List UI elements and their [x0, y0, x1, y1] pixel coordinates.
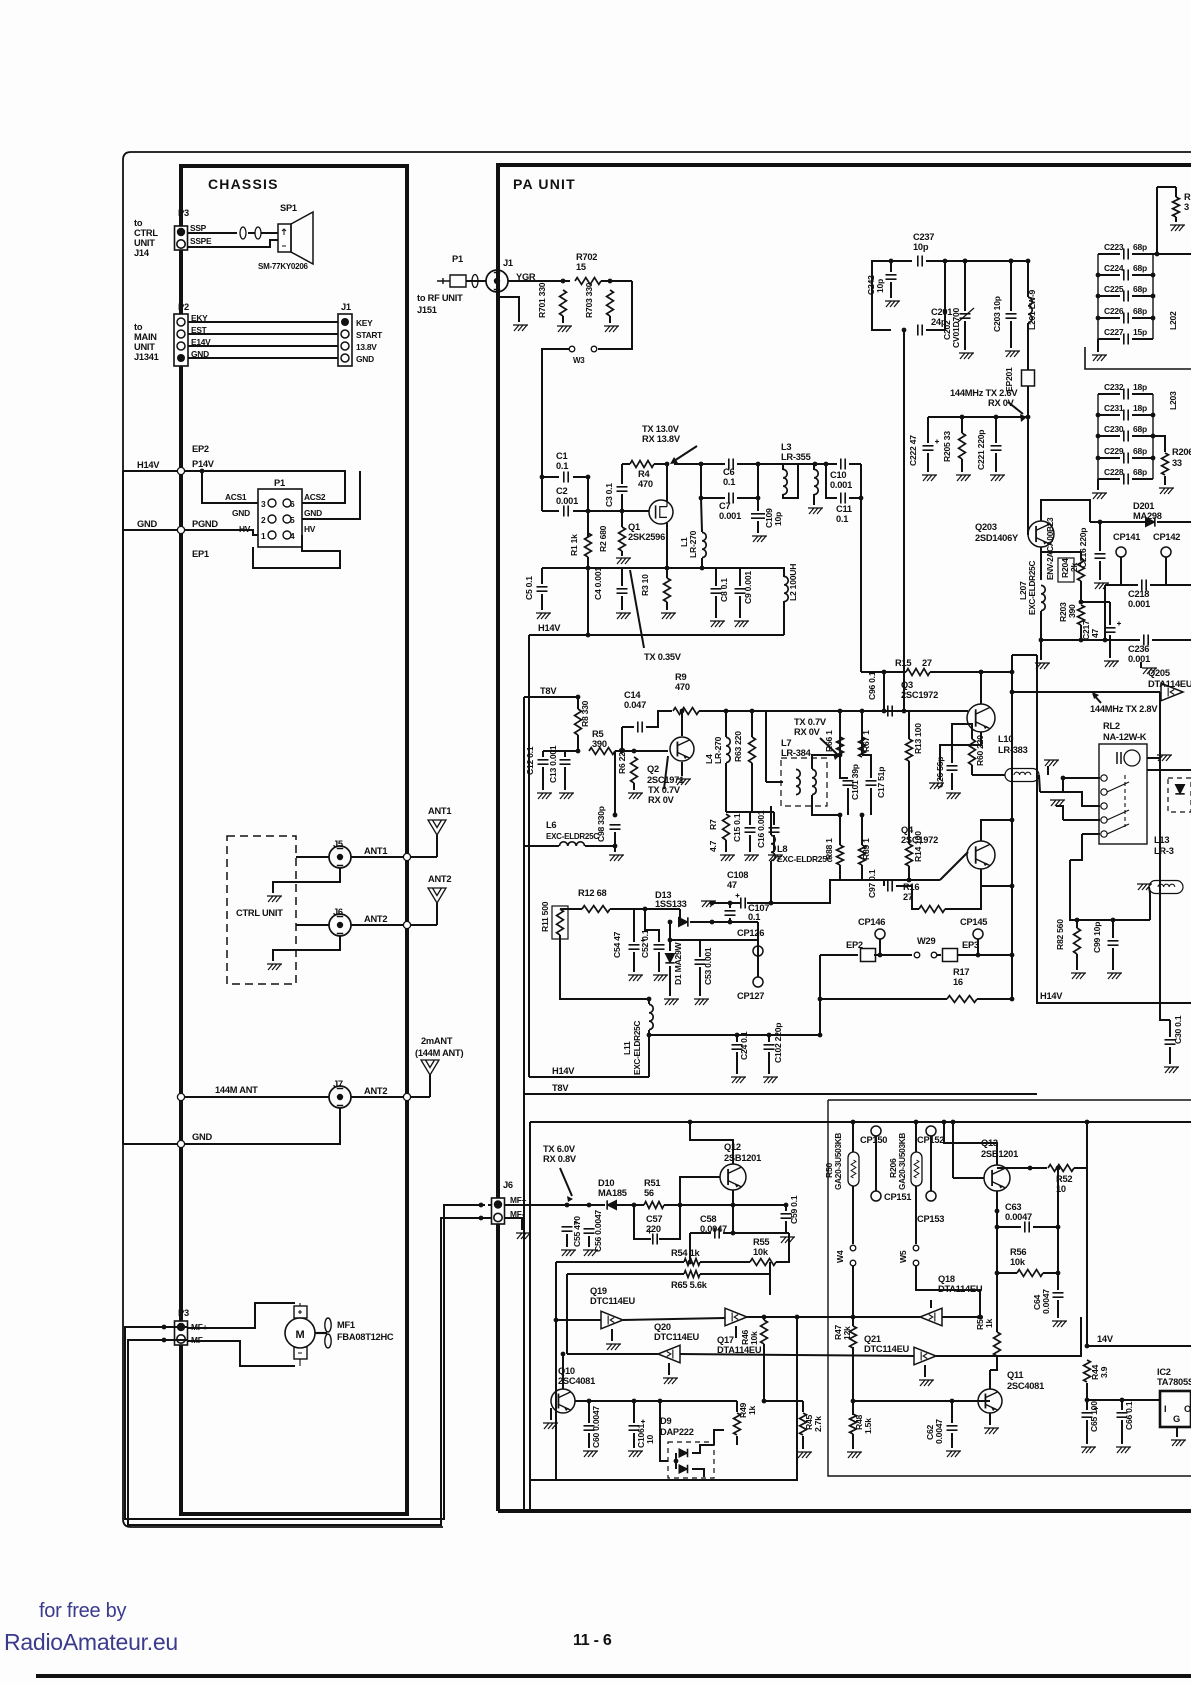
wire — [1099, 561, 1101, 580]
svg-text:0.001: 0.001 — [830, 480, 852, 490]
wire motor+ — [187, 1303, 295, 1328]
svg-text:EXC-ELDR25C: EXC-ELDR25C — [1028, 561, 1037, 615]
wire R11 to L11 — [560, 960, 649, 999]
svg-text:C65 100: C65 100 — [1089, 1401, 1099, 1432]
junction — [907, 878, 912, 883]
test point CP152 — [926, 1126, 936, 1136]
svg-text:CP141: CP141 — [1113, 532, 1140, 542]
ground R45 — [797, 1452, 812, 1458]
svg-text:R701 330: R701 330 — [537, 282, 547, 318]
capacitor C59 — [781, 1214, 792, 1218]
junction — [1079, 600, 1084, 605]
junction — [878, 953, 883, 958]
junction — [995, 1209, 1000, 1214]
svg-text:GA20-3U503KB: GA20-3U503KB — [834, 1133, 843, 1190]
capacitor C223 — [1124, 249, 1128, 260]
ground Q19 — [606, 1344, 621, 1350]
junction — [1151, 413, 1156, 418]
wire — [436, 835, 438, 857]
wire R53 out — [990, 1357, 997, 1370]
junction — [680, 709, 685, 714]
svg-text:R13 100: R13 100 — [913, 723, 923, 754]
wire L6 out — [585, 845, 615, 847]
wire Q18 tail — [930, 1300, 932, 1308]
wire D10 out — [617, 1204, 644, 1206]
svg-text:2SB1201: 2SB1201 — [981, 1149, 1018, 1159]
wire — [187, 232, 237, 234]
svg-text:C15 0.1: C15 0.1 — [732, 813, 742, 842]
junction — [838, 813, 843, 818]
svg-text:ANT1: ANT1 — [428, 806, 451, 816]
svg-text:H14V: H14V — [552, 1066, 575, 1076]
wire C225 in — [1098, 295, 1120, 297]
wire R14 top — [908, 786, 910, 844]
wire — [188, 345, 338, 347]
svg-text:C3 0.1: C3 0.1 — [604, 483, 614, 507]
wire C58 in — [690, 1232, 711, 1234]
wire — [542, 476, 559, 478]
svg-text:R3 10: R3 10 — [640, 574, 650, 596]
resistor R51 — [644, 1202, 664, 1209]
capacitor C99 — [1108, 941, 1119, 945]
inductor L207 — [1041, 585, 1045, 610]
wire C226 in — [1098, 317, 1120, 319]
wire — [609, 316, 611, 323]
wire L8 bot — [770, 861, 772, 903]
test point CP153 — [926, 1191, 936, 1201]
wire R46 top — [763, 1317, 765, 1320]
junction — [1085, 1120, 1090, 1125]
bottom rule — [36, 1674, 1191, 1678]
capacitor C227 — [1124, 334, 1128, 345]
svg-text:EP2: EP2 — [846, 940, 863, 950]
svg-text:10k: 10k — [753, 1247, 769, 1257]
wire to C12 — [543, 750, 578, 752]
svg-text:RX 0V: RX 0V — [794, 727, 821, 737]
wire — [1109, 602, 1111, 625]
svg-text:5: 5 — [290, 515, 295, 525]
junction — [902, 709, 907, 714]
svg-text:EXC-ELDR25C: EXC-ELDR25C — [546, 832, 599, 841]
ground C99 — [1107, 973, 1122, 979]
svg-text:68p: 68p — [1133, 424, 1147, 434]
wire C52 in — [645, 909, 659, 942]
svg-text:TX 13.0V: TX 13.0V — [642, 424, 680, 434]
capacitor C66 — [1117, 1413, 1128, 1417]
svg-text:470: 470 — [638, 479, 653, 489]
junction — [960, 415, 965, 420]
junction — [1151, 294, 1156, 299]
test point CP151 — [871, 1191, 881, 1201]
wire R4 in — [622, 463, 630, 465]
arrowhead — [670, 457, 678, 464]
wire — [588, 1433, 590, 1448]
junction — [620, 749, 625, 754]
svg-text:Q2: Q2 — [647, 764, 659, 774]
wire C227 in — [1098, 338, 1120, 340]
wire subbox top — [530, 1121, 1191, 1123]
svg-text:W5: W5 — [898, 1250, 908, 1263]
wire R17 in — [820, 998, 947, 1000]
test point CP142 — [1161, 547, 1171, 557]
resistor R49 — [734, 1413, 741, 1435]
wire C26 bot — [951, 773, 953, 790]
junction — [643, 907, 648, 912]
svg-text:PA UNIT: PA UNIT — [513, 176, 576, 192]
wire Q21 out — [936, 1317, 1081, 1356]
svg-text:CP151: CP151 — [884, 1192, 911, 1202]
svg-text:CTRL UNIT: CTRL UNIT — [236, 908, 283, 918]
junction — [700, 566, 705, 571]
ground R2 — [616, 558, 631, 564]
wire to C5 — [542, 567, 588, 569]
IC2 TA7805S box — [1160, 1391, 1191, 1427]
wire — [1121, 1400, 1123, 1410]
wire C228 out — [1132, 478, 1153, 480]
junction — [838, 709, 843, 714]
wire Q19-Q17 — [623, 1318, 725, 1320]
wire Q4 emitter — [980, 869, 982, 886]
wire C63 node — [1057, 1168, 1059, 1290]
ground bank1 — [1092, 355, 1107, 361]
junction — [943, 259, 948, 264]
svg-text:0.0047: 0.0047 — [1041, 1289, 1051, 1314]
svg-text:GND: GND — [137, 519, 157, 529]
junction — [1155, 252, 1160, 257]
wire Q11 collector — [989, 1370, 991, 1389]
wire C57 out — [659, 1205, 680, 1239]
junction — [586, 566, 591, 571]
wire C63 in — [997, 1226, 1021, 1228]
chassis box — [181, 166, 407, 1514]
junction — [479, 1203, 484, 1208]
wire Q13 emitter — [944, 1122, 997, 1165]
ground C55 — [561, 1250, 576, 1256]
junction — [818, 1033, 823, 1038]
wire R203 out — [1080, 625, 1082, 640]
wire C108 out — [747, 902, 771, 904]
svg-text:W4: W4 — [835, 1250, 845, 1263]
svg-text:2mANT: 2mANT — [421, 1036, 453, 1046]
wire R50 bot — [852, 1186, 854, 1244]
svg-text:C55 470: C55 470 — [572, 1216, 582, 1247]
svg-text:C108: C108 — [727, 870, 748, 880]
wire — [716, 568, 740, 586]
jumper W5 — [913, 1245, 919, 1251]
resistor R56 — [1017, 1270, 1043, 1277]
wire EP3 out — [957, 954, 1012, 956]
junction — [963, 259, 968, 264]
wire bank1 gnd — [1097, 339, 1099, 352]
svg-text:CP145: CP145 — [960, 917, 987, 927]
wire CP145 stem — [977, 939, 979, 955]
ground C236 row — [1142, 668, 1157, 674]
wire R65 row — [567, 1273, 684, 1275]
wire L7 out bottom — [812, 795, 840, 815]
svg-text:2SK2596: 2SK2596 — [628, 532, 665, 542]
wire R16 in — [912, 886, 919, 909]
junction — [688, 1120, 693, 1125]
svg-text:P3: P3 — [178, 1308, 189, 1318]
wire — [699, 967, 701, 996]
wire Q19 gnd — [611, 1329, 613, 1341]
wire contact2 — [1063, 792, 1100, 806]
capacitor C4 — [617, 589, 628, 593]
wire emitter row — [726, 811, 774, 813]
wire — [701, 498, 702, 532]
wire T8V vertical — [523, 697, 525, 1094]
junction R703 — [608, 279, 613, 284]
capacitor C24 — [732, 1045, 743, 1049]
wire L3 to C10 — [815, 463, 826, 465]
wire — [782, 464, 784, 470]
svg-text:O: O — [1184, 1404, 1191, 1414]
resistor R203 — [1078, 605, 1085, 625]
ground R7 — [720, 855, 735, 861]
ground IC2 — [1171, 1440, 1186, 1446]
svg-text:18p: 18p — [1133, 382, 1147, 392]
wire — [436, 903, 438, 925]
antenna ANT1 — [428, 820, 446, 835]
svg-text:P3: P3 — [178, 208, 189, 218]
wire C232 out — [1132, 393, 1153, 395]
svg-text:0.001: 0.001 — [719, 511, 741, 521]
wire Q12 emitter — [690, 1122, 733, 1164]
svg-text:15: 15 — [576, 262, 586, 272]
svg-text:DTA114EU: DTA114EU — [1148, 679, 1191, 689]
wire C57 in — [634, 1205, 651, 1239]
wire contact3 — [1063, 819, 1100, 821]
svg-text:CP146: CP146 — [858, 917, 885, 927]
wire top bus 2 — [840, 710, 905, 712]
ground C221 — [990, 475, 1005, 481]
svg-text:47: 47 — [1090, 628, 1100, 638]
wire R67 top — [861, 734, 863, 755]
wire to R15 row — [860, 498, 862, 672]
junction — [699, 462, 704, 467]
svg-text:15p: 15p — [1133, 327, 1147, 337]
coax jack J1 PA — [486, 270, 508, 292]
junction — [756, 462, 761, 467]
svg-text:C26 56p: C26 56p — [935, 757, 945, 788]
wire — [908, 761, 910, 786]
wire R53 in — [996, 1240, 998, 1332]
ground Q3 — [929, 783, 944, 789]
wire — [802, 1436, 804, 1449]
wire — [870, 788, 872, 815]
digital transistor Q17 — [725, 1308, 747, 1326]
inductor L7 primary — [796, 769, 800, 794]
wire left vertical low — [523, 1094, 525, 1510]
junction — [540, 475, 545, 480]
wire Q10 base — [562, 1354, 564, 1389]
junction — [942, 1120, 947, 1125]
resistor R65 — [684, 1271, 700, 1278]
ground C109 — [752, 536, 767, 542]
capacitor C1061 — [629, 1426, 640, 1430]
svg-text:C222 47: C222 47 — [908, 435, 918, 466]
svg-text:C224: C224 — [1104, 263, 1124, 273]
wire CP127 — [700, 940, 758, 977]
svg-text:10k: 10k — [1010, 1257, 1026, 1267]
junction — [978, 1315, 983, 1320]
wire C58 drop — [689, 1233, 691, 1262]
svg-text:C10: C10 — [830, 470, 846, 480]
wire 14V — [1087, 1345, 1191, 1347]
wire C217 branch — [1081, 601, 1110, 603]
svg-text:T8V: T8V — [540, 686, 557, 696]
wire base node — [614, 751, 616, 815]
wire R12 in — [560, 908, 582, 910]
svg-text:to: to — [134, 218, 143, 228]
ground C60 — [583, 1451, 598, 1457]
capacitor C1 — [564, 472, 568, 483]
junction — [784, 1203, 789, 1208]
capacitor C224 — [1124, 270, 1128, 281]
wire R15 out — [930, 671, 1012, 673]
svg-text:13.8V: 13.8V — [356, 342, 377, 352]
svg-text:C228: C228 — [1104, 467, 1124, 477]
wire contact4 — [1082, 833, 1100, 835]
svg-text:68p: 68p — [1133, 446, 1147, 456]
svg-text:(144M ANT): (144M ANT) — [415, 1048, 463, 1058]
wire C232 in — [1098, 393, 1120, 395]
resistor R14 — [906, 844, 913, 866]
svg-text:PGND: PGND — [192, 519, 218, 529]
junction — [1056, 1271, 1061, 1276]
svg-text:68p: 68p — [1133, 284, 1147, 294]
wire C58 out — [723, 1232, 789, 1234]
wire — [185, 471, 345, 489]
svg-text:C102 220p: C102 220p — [773, 1023, 783, 1063]
junction — [613, 844, 618, 849]
wire to C6 — [674, 463, 725, 465]
svg-text:0.001: 0.001 — [1128, 599, 1150, 609]
bank1 right bus — [1152, 254, 1154, 339]
relay RL2 coil — [1117, 752, 1121, 764]
junction — [647, 997, 652, 1002]
svg-text:LR-3: LR-3 — [1154, 846, 1174, 856]
junction — [554, 1318, 559, 1323]
wire — [541, 568, 543, 584]
svg-text:L2 100UH: L2 100UH — [788, 564, 798, 601]
wire — [927, 417, 929, 443]
junction — [1096, 316, 1101, 321]
wire C224 in — [1098, 274, 1120, 276]
wire D1 in — [669, 922, 671, 951]
svg-text:LR-270: LR-270 — [688, 530, 698, 558]
svg-text:D201: D201 — [1133, 501, 1154, 511]
capacitor C6 — [729, 459, 733, 470]
svg-text:R60 220: R60 220 — [975, 735, 985, 766]
svg-text:C56 0.0047: C56 0.0047 — [593, 1210, 603, 1252]
wire H14V right box — [1037, 655, 1191, 1003]
svg-text:R206: R206 — [888, 1158, 898, 1178]
wire H14V drop — [587, 568, 589, 635]
ground C108 — [701, 901, 716, 907]
diode D9b — [679, 1465, 688, 1474]
connector J1 chassis — [338, 314, 352, 366]
svg-text:R17: R17 — [953, 967, 969, 977]
svg-text:2SB1201: 2SB1201 — [724, 1153, 761, 1163]
capacitor C55 — [562, 1227, 573, 1231]
wire — [188, 321, 338, 323]
wire W3 to C1 — [542, 349, 569, 511]
svg-text:R703 330: R703 330 — [584, 282, 594, 318]
wire Q13 base up — [952, 1122, 954, 1178]
svg-text:0.1: 0.1 — [748, 912, 760, 922]
wire — [429, 1075, 431, 1097]
wire — [633, 783, 635, 790]
ground J5 — [267, 896, 282, 902]
wire Q3 collector — [980, 672, 982, 704]
connector P1 chassis — [258, 489, 302, 547]
wire — [123, 470, 177, 472]
digital transistor Q21 — [914, 1347, 936, 1365]
ground Q20 — [663, 1378, 678, 1384]
wire D13 out — [690, 921, 758, 923]
wire right bus — [1086, 1122, 1088, 1346]
wire — [164, 1339, 187, 1341]
junction — [632, 1203, 637, 1208]
wire — [961, 459, 963, 472]
svg-text:P14V: P14V — [192, 459, 215, 469]
outer frame top/left wire — [123, 152, 1191, 1527]
svg-text:27: 27 — [922, 658, 932, 668]
svg-text:P1: P1 — [274, 478, 285, 488]
svg-text:56: 56 — [644, 1188, 654, 1198]
wire Q13 base — [953, 1177, 984, 1179]
wire — [621, 596, 623, 610]
wire D9 out1 — [692, 1445, 714, 1453]
wire — [588, 1401, 590, 1423]
svg-text:D1 MA29W: D1 MA29W — [673, 941, 683, 985]
wire — [261, 232, 278, 234]
wire C226 out — [1132, 317, 1153, 319]
svg-text:C225: C225 — [1104, 284, 1124, 294]
capacitor C5 — [537, 587, 548, 591]
resistor R12 — [582, 906, 610, 913]
junction — [1075, 918, 1080, 923]
junction — [882, 709, 887, 714]
svg-text:GND: GND — [192, 1132, 212, 1142]
PA unit box — [498, 165, 1191, 1511]
svg-text:TX 0.7V: TX 0.7V — [794, 717, 827, 727]
svg-text:CHASSIS: CHASSIS — [208, 176, 279, 192]
wire R51 out — [664, 1204, 786, 1206]
wire — [1175, 187, 1177, 197]
junction — [1085, 1398, 1090, 1403]
svg-text:UNIT: UNIT — [134, 238, 155, 248]
wire — [927, 453, 929, 472]
svg-text:MA185: MA185 — [598, 1188, 627, 1198]
svg-text:C232: C232 — [1104, 382, 1124, 392]
wire Q205 in — [1012, 691, 1160, 693]
wire — [964, 261, 966, 311]
capacitor C3 — [617, 487, 628, 491]
diode D9a — [679, 1449, 688, 1458]
wire C216 in — [1099, 522, 1101, 551]
wire EP1 loop — [253, 535, 340, 568]
junction — [728, 901, 733, 906]
wire C236 out — [1152, 639, 1191, 641]
resistor R205 — [959, 433, 966, 459]
wire — [1112, 948, 1114, 970]
svg-text:2SC4081: 2SC4081 — [1007, 1381, 1044, 1391]
wire PGND to P1 — [185, 530, 258, 535]
wire — [736, 1401, 738, 1412]
inductor L3 secondary — [814, 469, 818, 494]
